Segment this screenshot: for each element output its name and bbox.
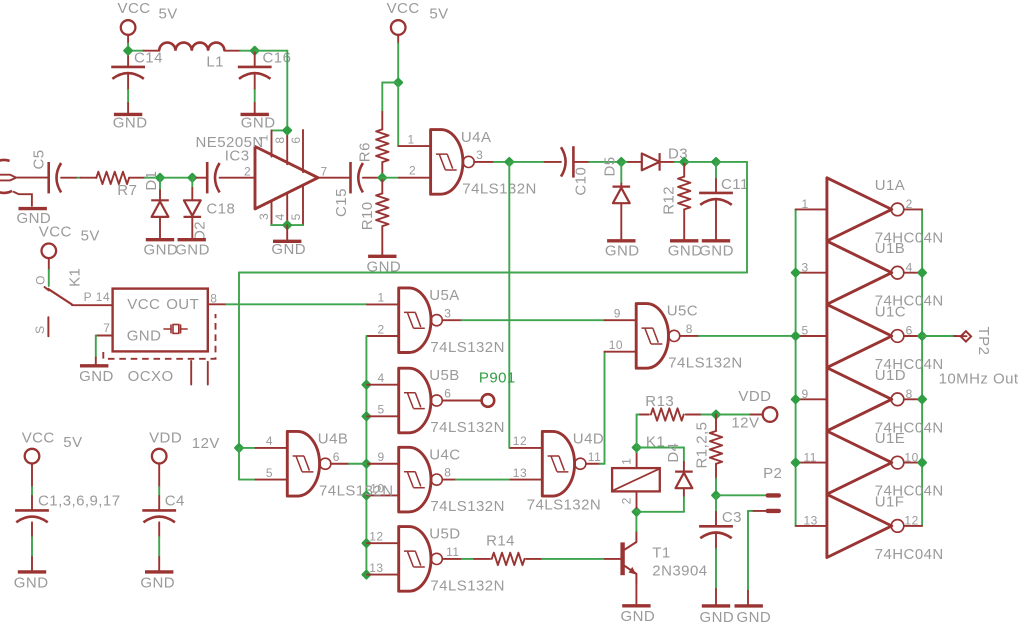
pin 2 output U1A — [904, 208, 922, 210]
wire R12 stem — [683, 162, 685, 177]
svg-text:11: 11 — [446, 545, 459, 559]
junction node G (C11) — [712, 158, 719, 165]
pin 11 output U4D — [586, 463, 600, 465]
pin 6 of IC3 — [302, 130, 304, 172]
capacitor C10 — [572, 146, 575, 177]
pin 9 of U4C — [365, 463, 368, 465]
wire D1 to GND — [159, 217, 161, 240]
switch K1 contact O — [45, 287, 49, 290]
svg-text:U5D: U5D — [429, 526, 460, 543]
junction input bus pin 11 — [792, 459, 799, 466]
switch K1 contact S — [47, 317, 49, 336]
svg-text:GND: GND — [127, 328, 162, 345]
ground D1 — [146, 238, 174, 241]
svg-text:12: 12 — [369, 530, 383, 544]
pin 10 of U5C — [605, 351, 637, 353]
nand gate U5A 74LS132N — [399, 288, 431, 353]
wire U4B out to bus — [349, 463, 366, 465]
svg-text:VCC: VCC — [387, 0, 420, 17]
wire D5 stem — [620, 162, 622, 184]
junction input bus pin 5 — [792, 332, 799, 339]
svg-text:5V: 5V — [81, 228, 100, 245]
svg-text:C1,3,6,9,17: C1,3,6,9,17 — [38, 493, 121, 510]
power VDD symbol (bottom-left) — [152, 449, 167, 464]
capacitor C1,3,6,9,17 — [15, 509, 49, 512]
junction node K (K1.1/R13/D4) — [633, 444, 640, 451]
wire node P to C3 — [715, 495, 717, 512]
junction U5B pin4 — [363, 381, 370, 388]
nand gate U4C 74LS132N — [399, 447, 431, 512]
pin 10 of U4C — [365, 494, 368, 496]
svg-text:8: 8 — [906, 387, 913, 401]
wire input bus (U5A.2 down to U5D.13) — [365, 336, 367, 575]
wire OCXO pin7 to GND — [95, 336, 97, 358]
pin 11 of U1E — [796, 462, 827, 464]
svg-text:11: 11 — [588, 450, 601, 464]
crystal symbol (in box) — [164, 328, 171, 330]
wire D4 to node H — [683, 488, 685, 497]
OCXO mounting pins — [190, 361, 192, 385]
junction output bus pin 6 — [918, 332, 925, 339]
pin 9 of U5C — [605, 319, 637, 321]
wire node D down to U4D pin12 — [508, 162, 510, 448]
ground BNC — [19, 207, 47, 210]
svg-text:12V: 12V — [192, 435, 220, 452]
wire C16 to GND — [254, 74, 256, 90]
capacitor C4 — [142, 509, 176, 512]
pin 8 of IC3 — [286, 130, 288, 164]
ground C11 — [702, 239, 730, 242]
wire L1 to C16 node — [224, 50, 240, 52]
wire VCC to switch — [48, 270, 50, 286]
ground C4 — [145, 570, 173, 573]
svg-text:R10: R10 — [359, 201, 376, 230]
svg-text:D5: D5 — [602, 156, 619, 176]
svg-text:U4B: U4B — [318, 431, 349, 448]
resistor R1,2,5 — [710, 431, 722, 464]
capacitor C5 — [47, 162, 50, 193]
svg-text:VCC: VCC — [127, 296, 160, 313]
svg-text:GND: GND — [668, 242, 703, 259]
pin 10 output U1E — [904, 462, 922, 464]
nand gate U5B 74LS132N — [399, 368, 431, 433]
op-amp IC3 NE5205N triangle — [255, 147, 318, 209]
pin 1 of IC3 — [271, 130, 273, 156]
junction U4C pin10 — [363, 492, 370, 499]
pin 6 output U1C — [904, 335, 922, 337]
svg-text:D4: D4 — [665, 443, 682, 463]
wire VCC node to R6 — [382, 82, 398, 84]
junction node B (D2) — [189, 174, 196, 181]
pin 1 of U1A — [796, 208, 827, 210]
pin 4 of U5B — [365, 384, 368, 386]
resistor R14 — [492, 553, 525, 565]
svg-text:8: 8 — [444, 466, 451, 480]
svg-text:74LS132N: 74LS132N — [668, 354, 743, 371]
wire T1 emitter to GND — [635, 583, 637, 606]
pin 5 of U1C — [796, 335, 827, 337]
pin 6 output U4B — [331, 463, 349, 465]
svg-text:3: 3 — [802, 260, 809, 274]
svg-text:13: 13 — [513, 466, 527, 480]
svg-text:C14: C14 — [134, 50, 163, 67]
junction node P (P2/C3) — [712, 492, 719, 499]
pin 8 output U4C — [442, 479, 456, 481]
wire C11 stem — [715, 162, 717, 179]
svg-text:10: 10 — [904, 450, 918, 464]
pin 1 of U4A — [399, 145, 431, 147]
wire C4 to GND — [158, 522, 160, 537]
junction U4B pin4 node — [235, 444, 242, 451]
svg-text:1: 1 — [408, 133, 415, 147]
pin 13 of U4D — [511, 479, 543, 481]
wire D2 stem — [191, 178, 193, 188]
wire C3 to GND — [715, 534, 717, 550]
junction node M (R13/VDD/R125) — [712, 411, 719, 418]
ground R12 — [670, 239, 698, 242]
svg-text:4: 4 — [273, 213, 287, 220]
svg-text:3: 3 — [257, 213, 271, 220]
wire VDD to C4 — [158, 487, 160, 496]
svg-text:5V: 5V — [159, 6, 178, 23]
svg-text:9: 9 — [614, 307, 621, 321]
capacitor C15 — [349, 162, 352, 193]
resistor R13 — [651, 408, 684, 420]
svg-text:O: O — [34, 275, 48, 285]
wire C18 to IC3 pin2 — [220, 177, 255, 179]
power VDD symbol (right) — [763, 407, 778, 422]
svg-text:2: 2 — [409, 164, 416, 178]
ground C14 — [114, 113, 142, 116]
wire D5 to GND — [620, 203, 622, 241]
capacitor C18 — [206, 162, 209, 193]
svg-text:VDD: VDD — [149, 430, 182, 447]
ground T1 — [622, 604, 650, 607]
ground OCXO — [80, 364, 108, 367]
resistor R7 — [96, 172, 129, 184]
svg-text:R7: R7 — [117, 182, 137, 199]
pin 13 of U1F — [796, 525, 827, 527]
svg-text:R1,2,5: R1,2,5 — [693, 422, 710, 469]
svg-text:R13: R13 — [645, 393, 674, 410]
wire C15 to R-node — [363, 177, 379, 179]
wire IC3 pin8 elbow — [272, 129, 288, 131]
wire BNC to C5 — [16, 177, 49, 179]
svg-text:1: 1 — [802, 197, 809, 211]
svg-text:1: 1 — [257, 134, 271, 141]
svg-text:9: 9 — [802, 387, 809, 401]
svg-text:U1D: U1D — [875, 367, 906, 384]
wire R6 to node C — [381, 162, 383, 175]
power VCC symbol (top-left) — [121, 20, 136, 35]
svg-text:2: 2 — [906, 197, 913, 211]
svg-text:GND: GND — [113, 115, 148, 132]
svg-text:12: 12 — [513, 434, 527, 448]
svg-text:GND: GND — [79, 368, 114, 385]
svg-text:C11: C11 — [721, 176, 749, 193]
svg-text:6: 6 — [906, 324, 913, 338]
nand gate U4A 74LS132N — [431, 130, 463, 195]
inductor L1 — [159, 43, 224, 51]
svg-text:1: 1 — [620, 458, 634, 465]
wire R1,2,5 to node P — [715, 464, 717, 479]
connector P2 pad 1 — [766, 493, 782, 497]
junction output bus pin 4 — [918, 269, 925, 276]
wire R10 to GND — [381, 226, 383, 256]
junction node F (R12) — [681, 158, 688, 165]
pin 4 of IC3 — [286, 193, 288, 225]
svg-text:5: 5 — [378, 403, 385, 417]
wire U5C out to inverter bus — [699, 335, 796, 337]
diode D4 — [675, 471, 693, 473]
diode D3 — [642, 154, 660, 171]
capacitor C11 — [699, 192, 733, 195]
svg-text:GND: GND — [700, 609, 735, 626]
svg-text:74LS132N: 74LS132N — [430, 577, 505, 594]
svg-text:C10: C10 — [573, 167, 590, 196]
junction C16 node — [251, 47, 258, 54]
wire D3 to node F — [660, 161, 675, 163]
svg-text:C18: C18 — [206, 201, 235, 218]
svg-text:TP2: TP2 — [975, 327, 992, 356]
power VCC symbol (switch) — [42, 244, 57, 259]
svg-text:K1: K1 — [66, 268, 83, 287]
svg-text:13: 13 — [804, 514, 818, 528]
svg-text:VCC: VCC — [118, 0, 151, 17]
wire node C to R10 — [381, 178, 383, 180]
svg-text:74LS132N: 74LS132N — [319, 482, 394, 499]
svg-text:12: 12 — [904, 514, 918, 528]
wire C5 to R7 — [61, 177, 77, 179]
svg-text:T1: T1 — [652, 545, 670, 562]
junction input bus pin 3 — [792, 269, 799, 276]
junction IC3 pin4 gnd — [284, 221, 291, 228]
svg-text:74LS132N: 74LS132N — [430, 419, 505, 436]
pin 7 wire IC3 to C15 — [318, 177, 351, 179]
svg-text:3: 3 — [476, 148, 483, 162]
svg-text:13: 13 — [369, 561, 383, 575]
ground D5 — [607, 239, 635, 242]
wire D2 to GND — [191, 217, 193, 240]
junction node H (collector/K1.2/D4) — [633, 508, 640, 515]
svg-text:5: 5 — [289, 213, 303, 220]
svg-text:D1: D1 — [143, 171, 160, 191]
ground C1 — [18, 570, 46, 573]
svg-text:2: 2 — [378, 322, 385, 336]
junction node C (R6/R10/C15) — [379, 174, 386, 181]
svg-text:U5C: U5C — [667, 303, 698, 320]
svg-text:P: P — [84, 290, 93, 304]
svg-text:GND: GND — [621, 608, 656, 625]
junction C14 node — [124, 47, 131, 54]
svg-text:11: 11 — [804, 450, 817, 464]
svg-text:GND: GND — [605, 242, 640, 259]
svg-text:P901: P901 — [479, 370, 516, 387]
pin 9 of U1D — [796, 398, 827, 400]
pin 13 of U5D — [365, 574, 368, 576]
svg-text:GND: GND — [14, 575, 49, 592]
svg-text:74LS132N: 74LS132N — [462, 181, 537, 198]
inverter U1D 74HC04N — [827, 368, 892, 431]
svg-text:10MHz Out: 10MHz Out — [939, 371, 1019, 388]
svg-text:5V: 5V — [429, 6, 448, 23]
ground R10 — [368, 255, 396, 258]
svg-text:4: 4 — [906, 260, 913, 274]
resistor R12 — [678, 177, 690, 210]
svg-text:L1: L1 — [206, 54, 224, 71]
wire U4C out to U4D pin13 — [456, 479, 511, 481]
wire node B to C18 — [192, 177, 196, 179]
svg-text:VCC: VCC — [39, 224, 72, 241]
inverter U1F 74HC04N — [827, 494, 892, 557]
inverter U1B 74HC04N — [827, 241, 892, 304]
svg-text:2: 2 — [620, 497, 634, 504]
wire VCC to C14 node — [127, 44, 129, 51]
svg-text:12V: 12V — [731, 414, 759, 431]
svg-text:8: 8 — [686, 322, 693, 336]
wire inverter output bus — [921, 209, 923, 526]
svg-text:7: 7 — [103, 321, 110, 335]
svg-text:U5B: U5B — [429, 367, 460, 384]
resistor R6 — [376, 129, 388, 162]
power VCC symbol (top-mid) — [391, 20, 406, 35]
pin 5 of U5B — [365, 415, 368, 417]
testpoint TP2 diamond — [961, 331, 971, 341]
svg-text:U1C: U1C — [875, 304, 906, 321]
pin 14 wire to OCXO — [72, 304, 113, 306]
svg-text:R6: R6 — [356, 142, 373, 162]
svg-text:74LS132N: 74LS132N — [527, 496, 602, 513]
svg-text:U1E: U1E — [875, 430, 906, 447]
wire node P to P2 pad1 — [716, 494, 766, 496]
svg-text:7: 7 — [321, 164, 328, 178]
svg-text:VCC: VCC — [22, 430, 55, 447]
junction output bus pin 8 — [918, 396, 925, 403]
svg-text:8: 8 — [273, 136, 287, 143]
svg-text:6: 6 — [333, 450, 340, 464]
wire node to L1 — [128, 50, 143, 52]
svg-text:GND: GND — [699, 242, 734, 259]
junction U5D pin12 — [363, 540, 370, 547]
nand gate U5C 74LS132N — [636, 304, 668, 369]
wire node E to D3 — [621, 161, 628, 163]
wire C11 to GND — [715, 200, 717, 241]
svg-text:U1A: U1A — [875, 177, 906, 194]
junction input bus pin 9 — [792, 396, 799, 403]
svg-text:GND: GND — [271, 241, 306, 258]
wire T1 collector to node H — [635, 512, 637, 531]
wire VCC down — [397, 44, 399, 83]
svg-text:6: 6 — [444, 387, 451, 401]
wire relay pin1 to node K — [636, 448, 638, 453]
power VCC symbol (bottom-left) — [25, 449, 40, 464]
wire node M to VDD — [716, 414, 751, 416]
svg-text:R12: R12 — [661, 186, 678, 215]
diode D5 — [613, 186, 631, 188]
pin 3 output U5A — [442, 319, 461, 321]
svg-text:GND: GND — [144, 241, 179, 258]
pin 2 of U4A — [399, 177, 431, 179]
inverter U1A 74HC04N — [827, 178, 892, 241]
svg-text:C4: C4 — [165, 493, 185, 510]
switch K1 arm — [48, 289, 72, 305]
junction output bus pin 10 — [918, 459, 925, 466]
svg-text:D2: D2 — [192, 221, 209, 241]
svg-text:14: 14 — [96, 290, 110, 304]
svg-text:S: S — [33, 325, 47, 334]
svg-text:C3: C3 — [722, 509, 742, 526]
diode D1 — [151, 199, 169, 201]
junction U4C pin9 node — [363, 460, 370, 467]
svg-text:U4D: U4D — [573, 431, 604, 448]
inverter U1C 74HC04N — [827, 304, 892, 367]
svg-text:C15: C15 — [333, 188, 350, 217]
wire U4D out up to U5C pin10 — [600, 463, 605, 465]
wire node K up to R13 — [636, 415, 638, 448]
svg-text:IC3: IC3 — [225, 148, 250, 165]
svg-text:U4A: U4A — [461, 129, 492, 146]
pin 2 of U5A — [367, 335, 399, 337]
pin 3 of U1B — [796, 272, 827, 274]
relay pin 1 — [636, 452, 638, 468]
nand gate U4D 74LS132N — [542, 431, 574, 496]
svg-text:U1B: U1B — [875, 240, 906, 257]
inverter U1E 74HC04N — [827, 431, 892, 494]
pin 11 output U5D — [442, 558, 461, 560]
svg-text:OUT: OUT — [166, 296, 199, 313]
svg-text:U5A: U5A — [429, 287, 460, 304]
wire U5D out to R14 — [462, 558, 475, 560]
junction node D (U4A out) — [506, 158, 513, 165]
wire R14 to T1 base — [526, 558, 542, 560]
pin 1 of U5A — [367, 303, 399, 305]
svg-text:9: 9 — [378, 450, 385, 464]
svg-text:1: 1 — [378, 291, 385, 305]
pin 8 output U5C — [680, 335, 699, 337]
wire down to U4B pin5 — [238, 448, 240, 480]
pin 7 of OCXO — [96, 335, 113, 337]
svg-text:OCXO: OCXO — [128, 368, 174, 385]
svg-text:GND: GND — [175, 241, 210, 258]
ground D2 — [178, 238, 206, 241]
pin 5 of IC3 — [302, 185, 304, 225]
wire U5A out to U5C pin9 — [462, 319, 605, 321]
wire node G right and down to U4B inputs — [716, 161, 747, 163]
wire to IC3 GND — [286, 225, 288, 241]
wire OCXO out to U5A pin1 — [226, 303, 367, 305]
wire R13 to node M — [686, 414, 702, 416]
junction U5D pin13 — [363, 571, 370, 578]
wire node K to D4 — [637, 447, 684, 449]
svg-text:GND: GND — [140, 575, 175, 592]
svg-text:74LS132N: 74LS132N — [430, 498, 505, 515]
svg-text:GND: GND — [737, 609, 772, 626]
svg-text:4: 4 — [266, 434, 273, 448]
pin 3 output U4A — [474, 161, 494, 163]
wire IC3 ground rail — [271, 224, 303, 226]
ground P2 — [735, 604, 763, 607]
wire node C to U4A pin2 — [382, 177, 399, 179]
svg-text:5: 5 — [802, 324, 809, 338]
wire C10 to node E — [573, 161, 589, 163]
wire node D to C10 — [509, 161, 544, 163]
svg-text:8: 8 — [210, 291, 217, 305]
capacitor C14 — [127, 51, 129, 67]
svg-text:U1F: U1F — [875, 493, 905, 510]
testpoint P901 — [482, 394, 495, 407]
connector P2 pad 2 — [766, 509, 782, 513]
svg-text:5: 5 — [266, 466, 273, 480]
